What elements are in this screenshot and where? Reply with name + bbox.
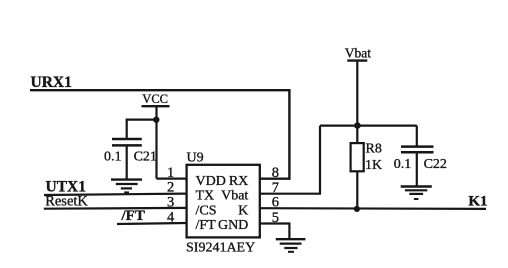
svg-text:7: 7	[272, 180, 279, 196]
svg-text:3: 3	[167, 194, 174, 210]
svg-text:R8: R8	[366, 142, 382, 157]
svg-text:2: 2	[167, 179, 174, 195]
svg-text:4: 4	[167, 209, 175, 225]
svg-text:6: 6	[272, 195, 279, 211]
svg-text:/CS: /CS	[196, 203, 217, 218]
svg-text:URX1: URX1	[31, 74, 72, 91]
svg-text:Vbat: Vbat	[345, 45, 371, 60]
svg-text:SI9241AEY: SI9241AEY	[186, 240, 255, 255]
svg-text:8: 8	[272, 165, 279, 181]
svg-text:/FT: /FT	[196, 218, 217, 233]
svg-text:VCC: VCC	[142, 92, 168, 106]
svg-text:5: 5	[272, 210, 279, 226]
svg-text:ResetK: ResetK	[45, 193, 88, 209]
svg-text:C21: C21	[134, 150, 157, 165]
svg-text:0.1: 0.1	[394, 157, 412, 172]
svg-text:U9: U9	[187, 151, 204, 166]
svg-text:K: K	[238, 203, 248, 218]
svg-text:/FT: /FT	[121, 208, 145, 224]
svg-text:TX: TX	[196, 189, 215, 204]
svg-text:Vbat: Vbat	[221, 189, 248, 204]
svg-text:1K: 1K	[365, 158, 382, 173]
svg-text:RX: RX	[229, 174, 248, 189]
svg-text:0.1: 0.1	[104, 150, 122, 165]
svg-text:VDD: VDD	[196, 174, 226, 189]
svg-text:C22: C22	[424, 157, 447, 172]
svg-text:GND: GND	[218, 218, 248, 233]
svg-text:K1: K1	[468, 194, 487, 210]
